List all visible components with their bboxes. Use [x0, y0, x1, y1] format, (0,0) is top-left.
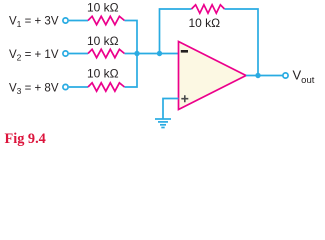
svg-text:10 kΩ: 10 kΩ: [87, 1, 119, 15]
svg-text:Vout: Vout: [293, 68, 315, 87]
wire op-amp output: [246, 75, 283, 77]
wire V3 terminal to R3: [69, 86, 88, 88]
terminal V2: [63, 51, 68, 56]
svg-text:Fig 9.4: Fig 9.4: [5, 131, 46, 147]
terminal V3: [63, 84, 68, 89]
terminal Vout: [283, 73, 288, 78]
wire V2 terminal to R2: [69, 53, 88, 55]
svg-text:V2 = + 1V: V2 = + 1V: [9, 49, 59, 62]
svg-text:V1 = + 3V: V1 = + 3V: [9, 16, 59, 29]
op-amp non-inverting input plus sign: [181, 95, 188, 102]
junction summing node A: [134, 51, 139, 56]
wire R3 output up to summing node: [125, 54, 138, 88]
resistor R1 10 kOhm: [88, 16, 125, 24]
op-amp U1 body: [179, 42, 247, 110]
wire feedback down-right segment to output node: [225, 9, 259, 76]
junction feedback tap node B: [157, 51, 162, 56]
svg-text:10 kΩ: 10 kΩ: [87, 34, 119, 48]
junction output node: [255, 73, 260, 78]
svg-text:10 kΩ: 10 kΩ: [189, 16, 221, 30]
wire feedback up-left segment: [160, 9, 192, 54]
ground: [155, 119, 171, 128]
resistor R3 10 kOhm: [88, 83, 125, 91]
op-amp inverting input minus sign: [181, 50, 188, 53]
wire R1 output down to summing node: [125, 21, 138, 54]
resistor R2 10 kOhm: [88, 49, 125, 57]
wire V1 terminal to R1: [69, 20, 88, 22]
svg-text:10 kΩ: 10 kΩ: [87, 67, 119, 81]
terminal V1: [63, 18, 68, 23]
svg-text:V3 = + 8V: V3 = + 8V: [9, 83, 59, 96]
resistor Rf 10 kOhm feedback: [192, 5, 225, 13]
wire R2 output to op-amp inverting input: [125, 53, 179, 55]
wire non-inverting input to ground: [163, 99, 179, 120]
